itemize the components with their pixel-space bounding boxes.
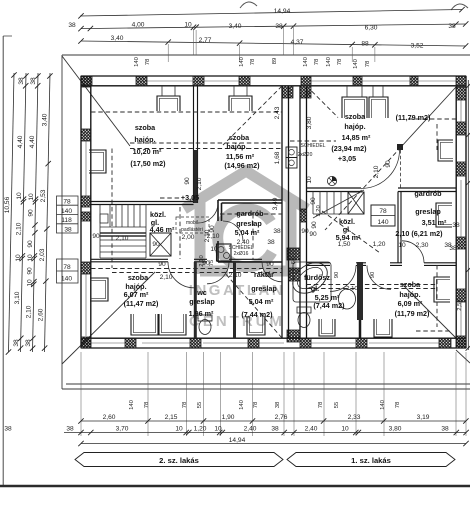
svg-text:2,40: 2,40 xyxy=(237,239,250,246)
svg-text:2,10: 2,10 xyxy=(229,272,242,279)
svg-text:90: 90 xyxy=(334,271,340,278)
svg-text:90: 90 xyxy=(152,241,160,248)
scan border bottom xyxy=(0,485,470,487)
svg-text:140: 140 xyxy=(134,56,140,67)
svg-text:55: 55 xyxy=(334,401,340,408)
svg-text:6,09 m²: 6,09 m² xyxy=(398,299,423,308)
svg-text:2,60: 2,60 xyxy=(103,414,116,421)
svg-text:SCHIEDEL: SCHIEDEL xyxy=(300,143,325,149)
party pier small xyxy=(300,209,307,222)
window right wall upper xyxy=(438,140,453,161)
svg-text:hajóp.: hajóp. xyxy=(226,142,247,151)
mobil label dashed box xyxy=(176,217,209,233)
svg-text:2,00: 2,00 xyxy=(182,234,195,241)
svg-text:10: 10 xyxy=(214,426,222,433)
stair left unit xyxy=(100,205,146,259)
svg-text:78: 78 xyxy=(145,58,151,65)
svg-text:38: 38 xyxy=(275,401,281,408)
svg-text:3,40: 3,40 xyxy=(229,23,242,30)
svg-text:90: 90 xyxy=(158,261,166,268)
sweep symbol xyxy=(327,176,336,185)
svg-text:90: 90 xyxy=(27,267,34,275)
svg-text:10: 10 xyxy=(341,426,349,433)
svg-text:2,10: 2,10 xyxy=(160,274,173,281)
svg-text:6,30: 6,30 xyxy=(365,25,378,32)
svg-text:140: 140 xyxy=(303,56,309,67)
svg-text:38: 38 xyxy=(13,339,20,347)
svg-text:38: 38 xyxy=(452,222,460,229)
svg-text:90: 90 xyxy=(184,177,191,185)
wall B xyxy=(91,259,262,262)
svg-text:2,33: 2,33 xyxy=(348,414,361,421)
svg-text:2,40: 2,40 xyxy=(305,426,318,433)
svg-text:140: 140 xyxy=(353,58,359,69)
svg-text:1,90: 1,90 xyxy=(222,414,235,421)
svg-text:4,00: 4,00 xyxy=(132,22,145,29)
svg-text:140: 140 xyxy=(129,399,135,410)
svg-text:140: 140 xyxy=(61,276,72,283)
svg-text:2,10: 2,10 xyxy=(26,305,33,318)
svg-text:(11,47 m2): (11,47 m2) xyxy=(124,299,159,308)
svg-text:38: 38 xyxy=(449,245,457,252)
svg-text:78: 78 xyxy=(63,199,71,206)
svg-text:78: 78 xyxy=(318,401,324,408)
svg-text:38: 38 xyxy=(275,23,283,30)
svg-text:55: 55 xyxy=(197,401,203,408)
svg-text:gardrób: gardrób xyxy=(236,209,264,218)
svg-text:1,20: 1,20 xyxy=(194,426,207,433)
svg-text:10: 10 xyxy=(175,426,183,433)
svg-text:140: 140 xyxy=(380,399,386,410)
svg-text:10: 10 xyxy=(306,176,313,184)
svg-text:gardrób: gardrób xyxy=(414,189,442,198)
watermark house logo xyxy=(184,171,307,274)
svg-text:greslap: greslap xyxy=(189,297,215,306)
wall A xyxy=(91,202,194,205)
window szoba BL b xyxy=(159,314,186,335)
svg-text:szoba: szoba xyxy=(229,133,250,142)
svg-text:10: 10 xyxy=(27,254,34,262)
svg-text:38: 38 xyxy=(273,228,281,235)
svg-text:3,19: 3,19 xyxy=(417,414,430,421)
svg-text:38: 38 xyxy=(4,426,12,433)
svg-text:hajóp.: hajóp. xyxy=(134,135,155,144)
left margin spec box 2 xyxy=(57,259,79,283)
svg-text:szoba: szoba xyxy=(135,123,156,132)
washbasin xyxy=(339,289,356,309)
svg-text:1. sz. lakás: 1. sz. lakás xyxy=(351,456,391,465)
svg-text:90: 90 xyxy=(370,271,376,278)
party wall band B xyxy=(300,86,307,338)
svg-text:2,76: 2,76 xyxy=(275,414,288,421)
outer wall band xyxy=(81,76,466,348)
top dim row3 xyxy=(81,41,466,46)
svg-text:10: 10 xyxy=(15,254,22,262)
svg-text:3,51 m²: 3,51 m² xyxy=(422,218,447,227)
svg-text:1,20: 1,20 xyxy=(316,205,322,217)
hip BL xyxy=(62,272,155,364)
bottom dim rowA xyxy=(81,420,466,422)
svg-text:2,10: 2,10 xyxy=(116,235,129,242)
svg-text:+3,05: +3,05 xyxy=(181,193,199,202)
svg-text:2,43: 2,43 xyxy=(274,106,281,119)
szoba R door leaf xyxy=(400,150,402,188)
gardrob R left wall xyxy=(398,192,401,263)
top dim row2 xyxy=(81,24,466,29)
window left wall lower xyxy=(90,278,108,301)
gardrob L box xyxy=(218,200,282,262)
window raktar xyxy=(247,316,265,335)
svg-text:5,04 m²: 5,04 m² xyxy=(235,228,260,237)
svg-text:78: 78 xyxy=(395,401,401,408)
arc artifact left xyxy=(240,2,257,8)
svg-text:fürdősz.: fürdősz. xyxy=(304,273,332,282)
svg-text:2,10: 2,10 xyxy=(373,165,380,178)
partition furdo/szoba xyxy=(357,262,363,320)
stair R break diagonal xyxy=(313,190,364,218)
hip TL xyxy=(62,56,130,146)
window furdo xyxy=(319,319,335,336)
svg-text:szoba: szoba xyxy=(400,280,421,289)
svg-text:10: 10 xyxy=(210,246,218,253)
svg-text:6,07 m²: 6,07 m² xyxy=(124,290,149,299)
svg-text:2,03: 2,03 xyxy=(39,248,46,261)
svg-text:hajóp.: hajóp. xyxy=(344,122,365,131)
stair right unit xyxy=(313,192,364,215)
arc artifact right xyxy=(451,4,468,10)
svg-text:(7,44 m2): (7,44 m2) xyxy=(313,301,345,310)
window szoba BR xyxy=(374,319,392,337)
svg-text:140: 140 xyxy=(61,208,72,215)
svg-text:38: 38 xyxy=(64,227,72,234)
bottom extension lines xyxy=(81,352,466,436)
svg-text:78: 78 xyxy=(63,264,71,271)
svg-text:11,56 m²: 11,56 m² xyxy=(226,152,255,161)
svg-text:4,40: 4,40 xyxy=(29,135,36,148)
svg-text:(23,94 m2): (23,94 m2) xyxy=(331,144,367,153)
label box 2.sz lakas xyxy=(75,453,283,467)
partition wc/raktar xyxy=(233,262,236,338)
top dim row1 xyxy=(80,10,462,17)
bottom dim rowC xyxy=(81,443,466,445)
svg-text:2,10 (6,21 m2): 2,10 (6,21 m2) xyxy=(395,229,443,238)
svg-text:90: 90 xyxy=(301,228,309,235)
svg-text:78: 78 xyxy=(365,60,371,67)
svg-text:+3,05: +3,05 xyxy=(338,154,356,163)
svg-text:38: 38 xyxy=(448,23,456,30)
svg-text:140: 140 xyxy=(326,56,332,67)
svg-text:(7,44 m2): (7,44 m2) xyxy=(241,310,273,319)
svg-text:3,40: 3,40 xyxy=(42,113,49,126)
left margin spec box 1 xyxy=(57,196,79,233)
svg-text:10: 10 xyxy=(16,192,23,200)
window szoba1 top xyxy=(157,96,180,111)
svg-text:90: 90 xyxy=(310,197,317,205)
window right wall lower xyxy=(434,277,450,302)
svg-text:5,04 m²: 5,04 m² xyxy=(249,297,274,306)
wc left unit xyxy=(198,315,212,321)
chimney left SCHIEDEL 2x16 xyxy=(217,244,232,261)
svg-text:(14,96 m2): (14,96 m2) xyxy=(224,161,260,170)
svg-text:2,10: 2,10 xyxy=(196,177,203,190)
svg-text:(17,50 m2): (17,50 m2) xyxy=(130,159,166,168)
right dim line xyxy=(467,80,469,350)
svg-text:90: 90 xyxy=(311,221,318,229)
svg-text:90: 90 xyxy=(28,209,35,217)
svg-text:38: 38 xyxy=(18,77,25,85)
svg-text:68: 68 xyxy=(291,257,297,264)
svg-text:90: 90 xyxy=(266,261,274,268)
door arcs xyxy=(168,150,424,291)
window szoba2 top xyxy=(229,96,252,111)
svg-text:78: 78 xyxy=(144,401,150,408)
svg-text:38: 38 xyxy=(30,77,37,85)
svg-text:szoba: szoba xyxy=(128,273,149,282)
window szobaR top a xyxy=(342,97,367,118)
window left wall upper xyxy=(89,150,106,173)
window szoba BL a xyxy=(131,314,158,335)
svg-text:2. sz. lakás: 2. sz. lakás xyxy=(159,456,199,465)
svg-text:2,60: 2,60 xyxy=(38,308,45,321)
svg-text:78: 78 xyxy=(182,401,188,408)
svg-text:38: 38 xyxy=(66,426,74,433)
svg-text:padlástéri: padlástéri xyxy=(181,227,203,233)
svg-text:10,20 m²: 10,20 m² xyxy=(133,147,162,156)
svg-text:14,94: 14,94 xyxy=(229,437,246,444)
svg-text:75: 75 xyxy=(209,259,215,266)
svg-text:38: 38 xyxy=(267,239,275,246)
svg-text:2xØ16: 2xØ16 xyxy=(234,251,249,257)
svg-text:38: 38 xyxy=(441,426,449,433)
svg-text:118: 118 xyxy=(61,217,72,224)
svg-text:88: 88 xyxy=(361,41,369,48)
svg-text:raktár: raktár xyxy=(254,270,274,279)
partition szoba1/szoba2 xyxy=(194,86,198,203)
bottom dim rowB xyxy=(64,432,466,434)
svg-text:90: 90 xyxy=(92,233,100,240)
svg-text:3,80: 3,80 xyxy=(389,426,402,433)
svg-text:140: 140 xyxy=(239,56,245,67)
partition szoba/wc xyxy=(194,262,197,338)
wall D right unit xyxy=(307,263,457,266)
svg-text:78: 78 xyxy=(253,401,259,408)
attic hatch box R xyxy=(348,192,364,214)
svg-text:38: 38 xyxy=(271,426,279,433)
svg-text:hajóp.: hajóp. xyxy=(399,290,420,299)
party wall band A xyxy=(282,86,289,338)
hip TR xyxy=(401,87,456,147)
svg-text:89: 89 xyxy=(272,58,278,65)
svg-text:greslap: greslap xyxy=(415,207,441,216)
wall window lines xyxy=(86,81,461,343)
svg-text:2,15: 2,15 xyxy=(165,414,178,421)
svg-text:10: 10 xyxy=(184,22,192,29)
svg-text:2,40: 2,40 xyxy=(244,426,257,433)
svg-text:90: 90 xyxy=(27,240,34,248)
svg-text:1,96 m²: 1,96 m² xyxy=(189,309,214,318)
attic hatch box L xyxy=(150,233,171,256)
svg-text:14,94: 14,94 xyxy=(274,8,291,15)
svg-text:90: 90 xyxy=(309,231,317,238)
svg-text:140: 140 xyxy=(239,399,245,410)
svg-text:1,50: 1,50 xyxy=(338,241,351,248)
svg-text:10: 10 xyxy=(28,193,35,201)
svg-text:greslap: greslap xyxy=(236,219,262,228)
svg-text:3,40: 3,40 xyxy=(111,35,124,42)
svg-text:78: 78 xyxy=(379,208,387,215)
svg-text:4,37: 4,37 xyxy=(291,39,304,46)
svg-text:2,77: 2,77 xyxy=(199,37,212,44)
svg-text:140: 140 xyxy=(377,219,388,226)
svg-text:4,40: 4,40 xyxy=(17,135,24,148)
svg-text:gl.: gl. xyxy=(311,284,319,293)
svg-text:mobil: mobil xyxy=(186,220,198,226)
left dim chains xyxy=(9,73,15,352)
bathtub xyxy=(293,262,331,302)
window szobaR top b xyxy=(369,97,388,118)
svg-text:10: 10 xyxy=(26,279,33,287)
svg-text:2,30: 2,30 xyxy=(416,242,429,249)
svg-text:(11,79 m2): (11,79 m2) xyxy=(396,113,431,122)
svg-text:78: 78 xyxy=(314,58,320,65)
svg-text:2,10: 2,10 xyxy=(204,229,211,242)
svg-text:3,49: 3,49 xyxy=(272,197,279,210)
svg-text:(11,79 m2): (11,79 m2) xyxy=(395,309,430,318)
svg-text:78: 78 xyxy=(337,58,343,65)
svg-text:14,85 m²: 14,85 m² xyxy=(342,133,371,142)
top extension stubs xyxy=(168,27,375,62)
svg-text:90: 90 xyxy=(385,160,392,168)
svg-text:4,46 m²: 4,46 m² xyxy=(150,225,175,234)
wc right unit xyxy=(297,307,311,313)
svg-text:wc: wc xyxy=(196,288,207,297)
svg-text:3,70: 3,70 xyxy=(116,426,129,433)
svg-text:38: 38 xyxy=(68,22,76,29)
svg-text:szoba: szoba xyxy=(345,112,366,121)
eaves outline xyxy=(62,55,470,389)
hip BR xyxy=(404,286,456,338)
svg-text:greslap: greslap xyxy=(251,284,277,293)
svg-text:2,10: 2,10 xyxy=(199,255,205,267)
svg-text:2,10: 2,10 xyxy=(346,286,358,292)
svg-text:2xØ20: 2xØ20 xyxy=(298,152,313,158)
svg-text:3,10: 3,10 xyxy=(14,291,21,304)
dashed headroom lines xyxy=(91,86,456,338)
svg-text:78: 78 xyxy=(250,58,256,65)
chimney right SCHIEDEL 2x20 xyxy=(286,147,297,158)
svg-text:2,53: 2,53 xyxy=(40,189,47,202)
label box 1.sz lakas xyxy=(287,453,455,467)
svg-text:3,52: 3,52 xyxy=(411,43,424,50)
wall piers hatched xyxy=(81,76,92,86)
svg-text:1,68: 1,68 xyxy=(274,151,281,164)
window gardrob R xyxy=(436,203,452,227)
svg-text:2,52: 2,52 xyxy=(457,299,463,310)
wall C right unit xyxy=(307,188,457,192)
svg-text:10: 10 xyxy=(398,242,406,249)
svg-text:10,56: 10,56 xyxy=(4,196,11,213)
scan border left xyxy=(2,36,4,486)
window spec box xyxy=(371,205,395,226)
svg-text:38: 38 xyxy=(305,90,312,98)
svg-text:1,20: 1,20 xyxy=(373,241,386,248)
svg-text:2,10: 2,10 xyxy=(15,222,22,235)
svg-text:38: 38 xyxy=(25,339,32,347)
svg-text:3,80: 3,80 xyxy=(306,116,313,129)
